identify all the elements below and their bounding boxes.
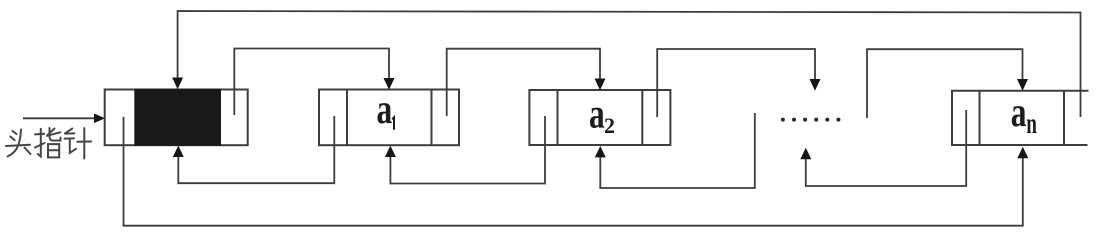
针 char: metal radical top diagonal xyxy=(65,129,72,134)
arrowhead: up into a1 bottom xyxy=(385,146,396,157)
指 char: spoon rising horizontal xyxy=(47,132,60,136)
针 char: ten vertical xyxy=(83,128,85,158)
wire: an.prev -> dots xyxy=(806,110,966,186)
svg-text:a: a xyxy=(589,91,605,137)
wire: a2.prev -> a1 xyxy=(390,116,545,184)
node a2 divider right xyxy=(641,90,643,145)
头 char: dot 1 xyxy=(13,131,17,134)
node a1 divider left xyxy=(346,90,348,146)
label an xyxy=(1011,90,1027,136)
arrowhead: down into an top xyxy=(1017,79,1028,91)
指 char: hand radical vertical with hook xyxy=(38,129,41,157)
node a1 box xyxy=(319,90,459,146)
arrowhead: up into head bottom xyxy=(173,146,184,157)
node an box (right edge open in scan) xyxy=(952,91,1089,145)
头 char: horizontal xyxy=(6,145,30,146)
arrowhead: down into head top xyxy=(172,78,183,90)
指 char: hand radical rising stroke xyxy=(35,143,45,148)
arrowhead: up at dots xyxy=(800,148,811,159)
针 char: metal radical horizontal 1 xyxy=(65,132,74,134)
label a1 xyxy=(377,87,393,133)
svg-text:a: a xyxy=(377,87,393,133)
arrowhead: up into a2 bottom xyxy=(595,146,606,157)
arrowhead: down at dots xyxy=(810,79,821,91)
wire: a1.prev -> head xyxy=(178,116,334,183)
head node box xyxy=(105,90,248,146)
wire: a2.next -> dots xyxy=(657,49,815,117)
wire: dots -> an xyxy=(867,49,1023,118)
label a2 xyxy=(589,91,605,137)
头 char: left-falling stroke xyxy=(8,130,22,157)
wire: head.next -> a1 xyxy=(234,49,389,116)
wire: head.prev -> an (bottom bus) xyxy=(124,117,1023,226)
label 头指针 (head pointer) drawn as strokes xyxy=(6,128,91,159)
指 char: sun box xyxy=(48,144,59,157)
wire: dots.prev -> a2 xyxy=(600,113,755,188)
node a1 divider right xyxy=(431,90,433,146)
针 char: metal radical horizontal 2 xyxy=(65,137,75,139)
指 char: hand radical horizontal xyxy=(35,133,44,136)
针 char: metal radical vertical with up hook xyxy=(70,139,76,153)
head node data field (black) xyxy=(134,89,221,146)
svg-text:a: a xyxy=(1011,90,1027,136)
arrowhead: down into a1 top xyxy=(384,78,395,90)
svg-text:n: n xyxy=(1026,108,1037,140)
arrowhead: up into an bottom xyxy=(1017,147,1028,158)
针 char: ten horizontal xyxy=(77,141,91,143)
wire: an.next -> head (top bus) xyxy=(178,11,1081,117)
node a2 divider left xyxy=(557,90,559,145)
ellipsis dots between a2 and an xyxy=(781,118,841,122)
node an divider left xyxy=(979,91,981,145)
node a2 box xyxy=(529,90,670,145)
指 char: spoon bend xyxy=(50,128,61,141)
wire: head pointer arrow shaft xyxy=(23,117,96,119)
wire: a1.next -> a2 xyxy=(447,49,600,116)
指 char: sun middle bar xyxy=(48,149,59,151)
svg-text:2: 2 xyxy=(604,113,615,138)
arrowhead: down into a2 top xyxy=(595,79,606,91)
头 char: right dot xyxy=(25,148,31,155)
arrowhead: head pointer -> head node xyxy=(94,114,105,124)
node an divider right xyxy=(1063,91,1065,145)
指 char: spoon diagonal xyxy=(48,129,55,136)
头 char: dot 2 xyxy=(10,137,14,141)
